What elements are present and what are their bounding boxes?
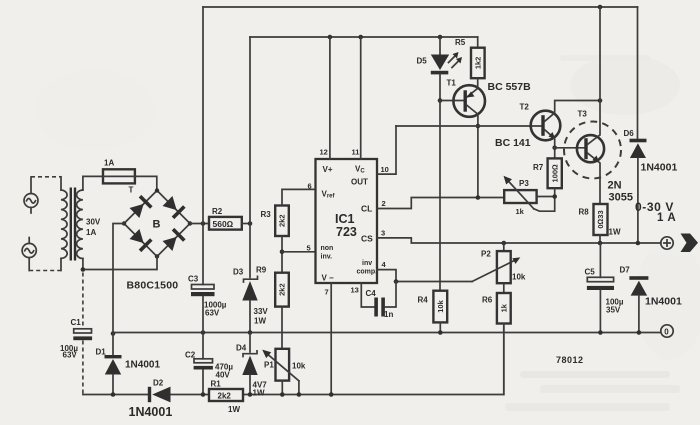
node D3 bottom on zero rail <box>248 330 253 335</box>
svg-text:5: 5 <box>307 244 311 253</box>
resistor R6 1k <box>497 293 511 395</box>
wire outer top rail raw plus <box>203 6 638 8</box>
wire R2 to D3 node <box>242 223 250 225</box>
node raw plus junction x203 <box>201 221 206 226</box>
svg-text:D5: D5 <box>417 57 428 66</box>
svg-text:R1: R1 <box>211 380 222 389</box>
pin 13 comp <box>351 283 375 307</box>
wire D5 column down to R4 <box>439 101 441 291</box>
wire minus auxiliary rail <box>83 324 504 395</box>
svg-text:V+: V+ <box>323 165 333 174</box>
node R7 P3 wiper junction <box>552 194 557 199</box>
AC source lower (mains neutral) <box>22 238 36 271</box>
wire dashed junction to C1 <box>82 273 84 329</box>
svg-text:D6: D6 <box>624 129 635 138</box>
wire junction to pin5 <box>282 251 316 253</box>
resistor R9 2k2 <box>275 273 289 307</box>
wire fuse to bridge top <box>135 176 157 190</box>
node T1 collector on CL wire <box>476 195 481 200</box>
pin 12 V+ <box>320 37 333 174</box>
svg-text:CS: CS <box>361 234 373 244</box>
label IC1 723 <box>335 212 357 239</box>
bridge diode left-top <box>129 195 153 219</box>
svg-text:1N4001: 1N4001 <box>125 360 160 371</box>
wire R9 bottom to P1 <box>281 307 283 349</box>
svg-text:D7: D7 <box>620 266 631 275</box>
svg-text:P1: P1 <box>264 361 274 370</box>
zener diode D3 33V 1W <box>242 224 257 333</box>
bridge diode top-right <box>162 195 186 219</box>
diode D1 <box>105 333 122 395</box>
pin 10 OUT <box>351 126 396 187</box>
svg-text:C5: C5 <box>585 268 596 277</box>
svg-text:7: 7 <box>325 288 329 297</box>
resistor R2 560 ohm <box>209 217 242 230</box>
svg-text:CL: CL <box>361 204 372 214</box>
svg-text:P2: P2 <box>481 250 491 259</box>
svg-text:T2: T2 <box>520 103 530 112</box>
wire R3 bottom to R9 top <box>281 236 283 273</box>
svg-text:IC1: IC1 <box>335 212 355 226</box>
svg-text:33V: 33V <box>254 307 269 316</box>
wire C2 top to zero rail <box>202 333 204 359</box>
svg-text:6: 6 <box>308 182 312 191</box>
svg-text:30V: 30V <box>86 218 101 227</box>
pin 7 V- <box>322 274 335 395</box>
svg-text:C3: C3 <box>188 275 199 284</box>
svg-text:3: 3 <box>381 229 385 238</box>
diode D2 <box>148 387 171 403</box>
node bridge bottom vertex <box>155 254 159 258</box>
node secondary bottom junction <box>81 267 86 272</box>
svg-text:B80C1500: B80C1500 <box>127 280 179 292</box>
resistor R4 10k <box>433 291 447 333</box>
node T1 base junction <box>438 98 443 103</box>
svg-text:R2: R2 <box>212 207 223 216</box>
zener diode D4 4V7 1W <box>242 333 257 395</box>
svg-text:comp.: comp. <box>357 269 378 276</box>
transistor T3 2N3055 <box>577 101 604 205</box>
LED D5 <box>431 37 449 101</box>
svg-text:1k: 1k <box>499 303 508 312</box>
svg-text:R6: R6 <box>482 296 493 305</box>
svg-text:1W: 1W <box>254 317 266 326</box>
svg-text:D2: D2 <box>153 379 164 388</box>
node bridge right vertex <box>188 221 192 225</box>
svg-text:BC 557B: BC 557B <box>488 81 532 93</box>
svg-text:0: 0 <box>664 328 669 337</box>
svg-text:T1: T1 <box>447 79 457 88</box>
svg-text:2k2: 2k2 <box>278 214 287 227</box>
transformer Tr secondary winding <box>77 190 83 259</box>
resistor R7 100 ohm <box>548 158 562 196</box>
svg-text:D4: D4 <box>236 344 247 353</box>
fuse F 1A <box>103 169 135 183</box>
wire second top rail <box>250 36 478 38</box>
svg-text:1W: 1W <box>228 405 240 414</box>
node T2 collector junction x600 <box>598 98 603 103</box>
capacitor C3 <box>191 224 215 333</box>
node D7 bottom on zero rail <box>637 330 642 335</box>
pin 6 Vref <box>308 182 336 200</box>
node R4 bottom on zero rail <box>438 330 443 335</box>
svg-text:35V: 35V <box>606 306 621 315</box>
svg-text:1n: 1n <box>384 310 393 319</box>
label 4V7 1W for D4 <box>253 381 268 398</box>
LED D5 emission arrows <box>449 52 463 68</box>
node T1 collector on OUT wire <box>476 124 481 129</box>
node P1 bottom on minus rail <box>280 392 285 397</box>
svg-text:OUT: OUT <box>351 178 368 187</box>
capacitor C4 1n <box>374 282 396 317</box>
svg-text:P3: P3 <box>519 179 529 188</box>
wire mains dashed bottom <box>29 258 61 270</box>
svg-text:1A: 1A <box>86 228 96 237</box>
terminal zero output <box>661 325 673 337</box>
node pin7 on minus rail <box>329 392 334 397</box>
resistor R3 2k2 <box>275 206 289 237</box>
svg-text:R3: R3 <box>261 210 272 219</box>
wire T2 emitter to T3 base <box>555 147 585 149</box>
transistor T1 BC557B <box>453 78 485 197</box>
svg-text:78012: 78012 <box>556 355 584 365</box>
node D4 bottom on minus rail <box>248 392 253 397</box>
svg-text:1W: 1W <box>253 389 265 398</box>
pin 3 CS <box>361 229 661 244</box>
node non-inv divider junction <box>280 250 285 255</box>
svg-text:C4: C4 <box>366 289 377 298</box>
node P2 top on plus rail <box>502 241 507 246</box>
wire P2 bottom to R6 <box>503 283 505 293</box>
bridge diode left-bottom <box>129 228 153 252</box>
svg-text:R5: R5 <box>455 38 466 47</box>
capacitor C2 <box>194 359 213 395</box>
transistor T3 2N3055 dashed case <box>564 122 621 179</box>
svg-text:BC 141: BC 141 <box>495 137 531 149</box>
wire bridge left vertex down <box>113 224 124 333</box>
wire x600 column from top rail <box>599 7 601 101</box>
resistor R8 0R33 1W <box>594 204 608 243</box>
pin 5 non inv <box>307 244 334 261</box>
node D1 top on zero rail <box>111 331 116 336</box>
AC source upper (mains phase) <box>24 177 38 213</box>
resistor R5 1k2 <box>471 37 485 78</box>
node C2 bottom on minus rail <box>201 392 206 397</box>
node T2 emitter junction <box>552 146 557 151</box>
svg-text:B: B <box>153 219 161 231</box>
svg-text:non: non <box>321 245 334 252</box>
svg-text:1 A: 1 A <box>657 212 676 224</box>
node Vc column on second rail <box>358 35 363 40</box>
svg-text:560Ω: 560Ω <box>213 219 234 229</box>
svg-text:3055: 3055 <box>609 192 633 204</box>
wire bridge plus to R2 <box>190 223 209 225</box>
svg-text:R7: R7 <box>533 163 544 172</box>
bridge rectifier B diamond <box>124 191 190 257</box>
svg-text:0Ω33: 0Ω33 <box>596 210 605 228</box>
potentiometer P2 10k <box>472 243 520 283</box>
svg-text:1k2: 1k2 <box>473 57 482 70</box>
label 2N 3055 <box>608 180 633 204</box>
node C5 bottom on zero rail <box>598 330 603 335</box>
svg-text:100Ω: 100Ω <box>550 164 559 183</box>
label 100u 35V for C5 <box>606 298 624 315</box>
svg-text:1N4001: 1N4001 <box>641 162 678 174</box>
svg-text:10: 10 <box>381 165 389 174</box>
svg-text:10k: 10k <box>512 273 526 282</box>
node R8 bottom on plus rail <box>598 241 603 246</box>
svg-text:1k: 1k <box>516 207 525 216</box>
node D1 bottom on minus rail <box>111 392 116 397</box>
svg-text:63V: 63V <box>205 309 220 318</box>
potentiometer P3 1k <box>504 176 555 212</box>
svg-text:723: 723 <box>336 225 357 239</box>
wire OUT to T2 base <box>396 125 541 127</box>
label 0-30 V 1 A output <box>635 200 676 224</box>
node V+ column on second rail <box>328 35 333 40</box>
wire supply column to second rail <box>249 37 251 224</box>
svg-text:1W: 1W <box>609 228 621 237</box>
svg-text:inv.: inv. <box>321 254 333 261</box>
svg-text:D3: D3 <box>233 268 244 277</box>
svg-text:11: 11 <box>352 148 360 157</box>
wire outer left vertical raw plus <box>202 7 204 224</box>
svg-text:D1: D1 <box>96 348 107 357</box>
svg-text:1N4001: 1N4001 <box>645 296 682 308</box>
transformer Tr primary winding <box>61 190 67 258</box>
capacitor C5 <box>587 243 614 333</box>
svg-text:12: 12 <box>320 148 328 157</box>
svg-text:40V: 40V <box>216 371 231 380</box>
output arrow plus <box>681 234 699 253</box>
diode D6 <box>630 7 647 243</box>
diode D7 <box>629 276 648 332</box>
transformer Tr core <box>70 188 77 261</box>
svg-text:10k: 10k <box>436 299 445 312</box>
svg-text:2k2: 2k2 <box>218 392 232 401</box>
wire zero-volt rail <box>113 332 661 334</box>
node C2 top on zero rail <box>201 330 206 335</box>
label 30V 1A transformer secondary <box>86 218 101 238</box>
pin 11 Vc <box>352 37 366 175</box>
wire secondary top to fuse <box>83 176 103 190</box>
svg-text:2N: 2N <box>608 180 622 192</box>
node bridge left vertex <box>122 221 126 225</box>
wire bridge bottom to secondary bottom <box>83 257 157 270</box>
svg-text:inv: inv <box>362 260 372 267</box>
label 33V 1W for D3 <box>254 307 269 326</box>
svg-text:1N4001: 1N4001 <box>129 405 173 419</box>
node P1 wiper on minus rail <box>297 392 302 397</box>
svg-text:R8: R8 <box>579 208 590 217</box>
svg-text:V −: V − <box>322 274 335 283</box>
svg-text:13: 13 <box>351 286 359 295</box>
svg-text:10k: 10k <box>292 362 306 371</box>
pin 2 CL <box>361 198 504 214</box>
wire dashed C1 to minus rail <box>82 341 84 395</box>
transistor T2 BC141 <box>531 101 600 148</box>
node bridge top vertex <box>155 188 159 192</box>
pin 4 inv comp <box>357 260 473 282</box>
wire R3 top to pin6 <box>282 189 316 205</box>
wire T2 emitter to R7 <box>554 148 556 159</box>
capacitor C1 <box>73 329 92 340</box>
svg-text:R4: R4 <box>418 296 429 305</box>
svg-text:2: 2 <box>382 199 386 208</box>
svg-text:T: T <box>129 186 134 195</box>
node R2 output <box>248 221 253 226</box>
node top rail x600 <box>598 5 603 10</box>
wire mains dashed top <box>31 177 61 190</box>
label 100u 63V for C1 <box>60 344 78 360</box>
resistor R1 2k2 1W <box>209 389 243 401</box>
svg-text:C2: C2 <box>185 351 196 360</box>
label 470u 40V for C2 <box>215 363 233 380</box>
wire T1 base <box>440 100 464 102</box>
bridge diode bottom-right <box>162 228 186 252</box>
svg-text:R9: R9 <box>256 266 267 275</box>
label 1000u 63V for C3 <box>204 301 227 318</box>
node D6 bottom on plus rail <box>636 241 641 246</box>
terminal plus output <box>661 237 673 249</box>
svg-text:C1: C1 <box>71 318 82 327</box>
op-amp regulator IC1 723 body <box>316 159 378 283</box>
svg-text:1A: 1A <box>104 159 114 168</box>
svg-text:T3: T3 <box>578 110 588 119</box>
svg-text:2k2: 2k2 <box>278 283 287 296</box>
node D5 column on second rail <box>438 35 443 40</box>
svg-text:63V: 63V <box>63 351 78 360</box>
node pin4 C4 junction <box>394 279 399 284</box>
potentiometer P1 10k <box>262 349 299 395</box>
